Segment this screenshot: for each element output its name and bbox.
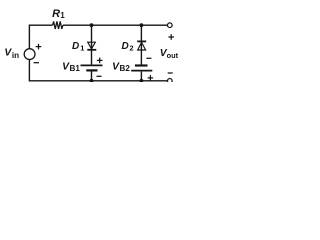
svg-text:D: D [72, 41, 79, 52]
minus sign of VB2 [146, 57, 151, 59]
wire: Vin bottom lead and bottom rail to output terminal [29, 60, 167, 81]
plus sign of Vin [36, 44, 42, 50]
source Vin circle [24, 49, 35, 60]
battery VB2 (short plate on top, long + plate below) [131, 66, 152, 71]
svg-text:in: in [12, 51, 19, 60]
node: junction dot D2 top rail [140, 23, 144, 27]
wire: Vin top lead up to top rail [29, 25, 52, 48]
wire: D2 branch (through hollow diode) [140, 25, 142, 64]
svg-text:B2: B2 [120, 64, 131, 73]
node: junction dot VB1 bottom rail [90, 79, 94, 83]
node: junction dot VB2 bottom rail [140, 79, 144, 83]
minus sign of Vin [34, 62, 39, 64]
minus sign of Vout [168, 72, 173, 74]
plus sign of VB1 [97, 58, 103, 64]
wire: VB2 to bottom rail [140, 72, 142, 81]
svg-text:1: 1 [60, 11, 65, 20]
terminal: output top open circle [168, 23, 173, 28]
wire: VB1 to bottom rail [91, 72, 93, 81]
wire: D1 branch (through hollow diode) [91, 25, 93, 64]
terminal: output bottom open circle [168, 79, 173, 84]
diode D1 (anode up, hollow triangle pointing down) [87, 42, 96, 50]
plus sign of VB2 [148, 75, 154, 81]
wire: top rail from resistor to output terminal [63, 24, 168, 26]
resistor R1 zigzag [53, 21, 63, 29]
svg-text:out: out [167, 51, 179, 60]
svg-text:D: D [122, 41, 129, 52]
plus sign of Vout [168, 34, 174, 40]
svg-text:2: 2 [130, 43, 134, 52]
diode D2 (cathode up, hollow triangle pointing up) [137, 41, 146, 50]
node: junction dot D1 top rail [90, 23, 94, 27]
battery VB1 (long + plate on top, short plate below) [81, 65, 103, 70]
svg-text:B1: B1 [70, 64, 81, 73]
svg-text:R: R [52, 8, 60, 20]
svg-text:1: 1 [80, 43, 84, 52]
minus sign of VB1 [97, 75, 102, 77]
